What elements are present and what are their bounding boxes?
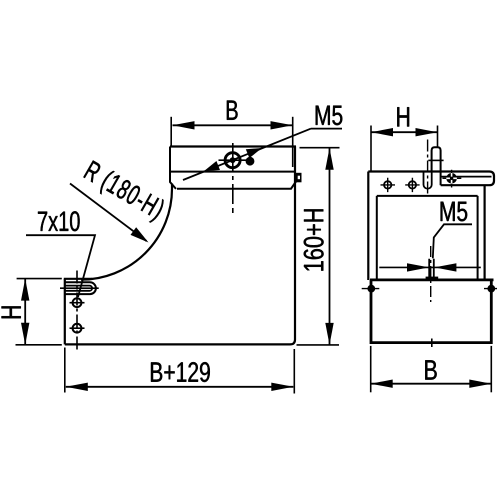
leader arrow up-right [246,144,264,159]
dimension 160+H right of left view [297,148,340,345]
corner bolt left [362,283,380,295]
radius arrowhead [130,227,151,246]
bolt pointer line [379,266,481,268]
corner bolt right [484,283,497,295]
left leg outline [64,147,295,345]
bolt U1 circle [225,153,240,168]
top bar outline [170,147,296,189]
bar right hook tab [296,173,302,183]
channel top outline [368,172,494,196]
M5 label [316,106,343,126]
bolt centerline [430,246,432,302]
H label right [397,107,409,126]
bolt pointer arrow left [407,263,429,271]
bend arc R(180-H) [81,184,172,280]
dimension H top [371,126,438,172]
160+H label (rotated) [304,209,324,270]
holes vertical centerline [76,271,78,353]
slot 7x10 inner [65,286,92,291]
hole 2 [70,324,85,333]
B+129 label [151,362,210,382]
bottom center tick [431,339,433,348]
lower tray rect [370,280,494,343]
channel hole left [381,178,396,192]
M5 leader diagonal [183,129,342,180]
strut walls [368,172,484,281]
radius arrow line [70,184,147,242]
bolt filled head [246,157,255,166]
bolt nut foot [426,277,439,281]
M5 leader right [433,224,472,258]
7x10 label [38,211,80,231]
7x10 leader [26,235,95,297]
dimension B top [171,117,293,167]
B label right [425,360,436,379]
dimension B bottom right [371,346,492,392]
hole 1 [70,298,85,307]
M5 label right [441,202,468,222]
bar vertical centerline [232,143,234,213]
big bolt top right [442,170,461,188]
leader arrow down-left [202,161,220,176]
bolt pointer arrow right [434,263,456,271]
M5 bolt shank [429,259,434,279]
slot 7x10 outer [65,282,96,294]
hook tab [428,147,443,171]
channel hole mid [405,178,419,192]
B label top [227,101,238,120]
bolt horizontal crosshair [219,159,248,161]
U slot [424,172,432,189]
dimension B+129 bottom [65,348,294,394]
U slot centerline [427,140,429,196]
slot crosshair [60,287,99,289]
H label left (rotated) [2,306,21,318]
R(180-H) label [80,160,166,225]
dimension H left [16,279,62,345]
